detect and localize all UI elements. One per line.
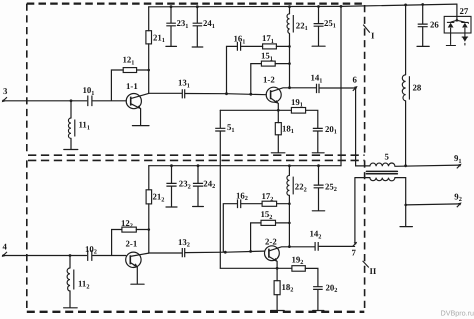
svg-text:6: 6 xyxy=(353,75,358,85)
svg-text:2-1: 2-1 xyxy=(126,238,138,248)
svg-text:4: 4 xyxy=(3,242,8,252)
svg-text:26: 26 xyxy=(430,20,439,30)
svg-text:I: I xyxy=(371,30,375,40)
svg-text:5: 5 xyxy=(385,152,390,162)
svg-text:1-2: 1-2 xyxy=(263,74,275,84)
svg-text:28: 28 xyxy=(413,83,422,93)
svg-text:II: II xyxy=(370,266,377,276)
svg-text:2-2: 2-2 xyxy=(265,237,277,247)
svg-text:1-1: 1-1 xyxy=(126,81,138,91)
svg-text:DVBpro.ru: DVBpro.ru xyxy=(441,308,474,317)
svg-text:27: 27 xyxy=(460,6,469,16)
svg-text:3: 3 xyxy=(3,86,8,96)
svg-text:7: 7 xyxy=(352,248,357,258)
